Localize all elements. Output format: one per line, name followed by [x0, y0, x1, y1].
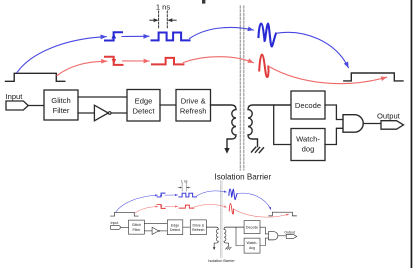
main diagram: [6, 3, 404, 182]
page border right edge: [411, 0, 413, 268]
stray cropped glyph top: [202, 0, 205, 4]
mini diagram scaled copy: [110, 179, 296, 263]
